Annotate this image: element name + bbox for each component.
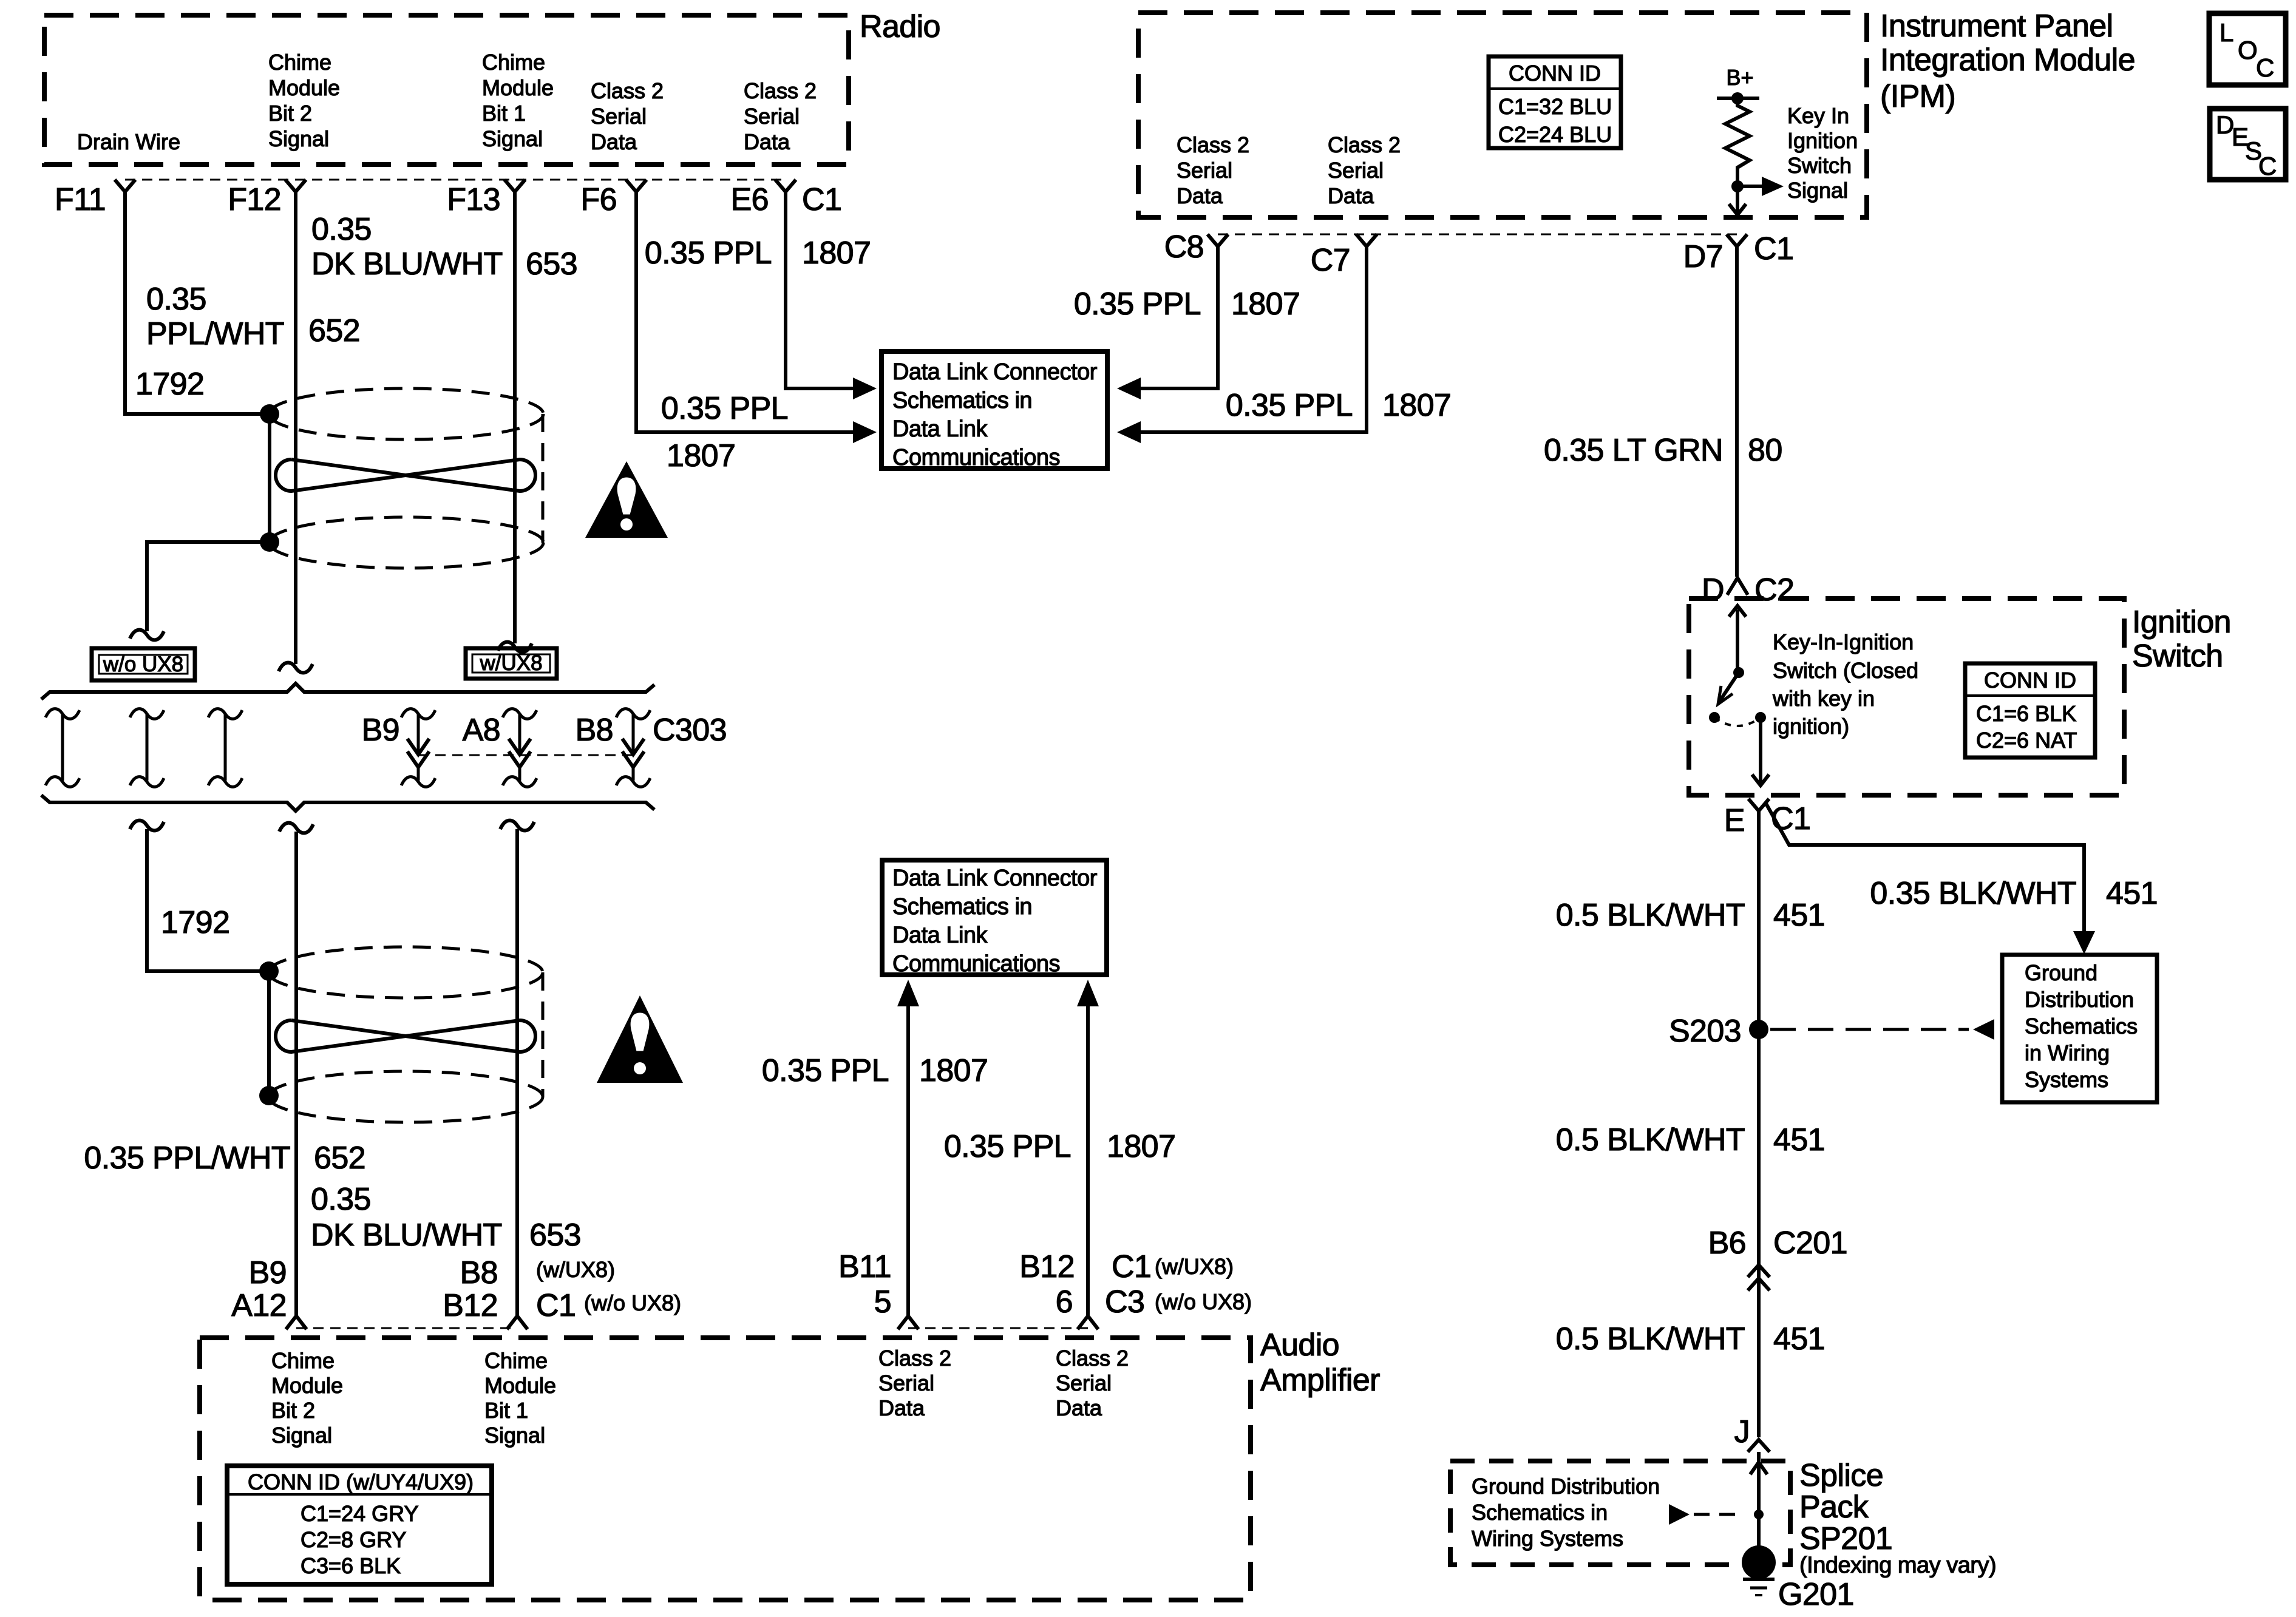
svg-text:6: 6 bbox=[1056, 1284, 1073, 1320]
reference box: Data Link Connector Schematics (upper) bbox=[881, 351, 1107, 469]
svg-text:O: O bbox=[2238, 36, 2257, 64]
arrowhead into data link box (from C7) bbox=[1117, 421, 1141, 443]
option box w/UX8 bbox=[466, 648, 557, 679]
wire break squiggle (F13 lower) bbox=[500, 821, 534, 831]
svg-text:C7: C7 bbox=[1311, 243, 1350, 278]
svg-text:L: L bbox=[2220, 18, 2233, 47]
svg-text:F13: F13 bbox=[447, 182, 500, 217]
svg-text:B9: B9 bbox=[249, 1255, 287, 1290]
wire: chime bit1 down to audio amplifier B8/B12 bbox=[515, 829, 519, 1317]
wire: F12 chime bit2 signal down through shield bbox=[294, 192, 297, 664]
svg-text:0.35 BLK/WHT: 0.35 BLK/WHT bbox=[1870, 876, 2076, 911]
module box: Splice Pack SP201 (dashed) bbox=[1450, 1461, 1790, 1565]
svg-text:CONN ID: CONN ID bbox=[1509, 61, 1601, 86]
svg-text:B8: B8 bbox=[576, 713, 613, 748]
wire: F6 class2 serial data to data link connector bbox=[636, 191, 855, 432]
C303 unused cavity symbol 1 bbox=[46, 709, 80, 719]
svg-text:ChimeModuleBit 1Signal: ChimeModuleBit 1Signal bbox=[482, 50, 554, 151]
C303 unused cavity symbol 3 bbox=[208, 709, 242, 719]
amp CONN ID box (w/UY4/UX9) bbox=[227, 1466, 492, 1584]
svg-text:IgnitionSwitch: IgnitionSwitch bbox=[2132, 605, 2231, 674]
svg-text:Class 2SerialData: Class 2SerialData bbox=[744, 78, 817, 154]
ground G201 terminal dot bbox=[1742, 1545, 1776, 1579]
shielding (lower): dashed cylinder top ellipse bbox=[268, 947, 543, 998]
svg-text:0.35PPL/WHT: 0.35PPL/WHT bbox=[146, 282, 284, 351]
arrowhead into data link box (from C8) bbox=[1117, 378, 1141, 399]
svg-text:0.5 BLK/WHT: 0.5 BLK/WHT bbox=[1556, 1321, 1745, 1357]
svg-text:C201: C201 bbox=[1773, 1225, 1847, 1261]
splice pack internal node dot bbox=[1754, 1510, 1764, 1519]
svg-text:C3: C3 bbox=[1105, 1284, 1144, 1320]
option box w/o UX8 bbox=[92, 648, 195, 680]
svg-text:1807: 1807 bbox=[1382, 388, 1451, 423]
ground symbol G201 bbox=[1743, 1578, 1775, 1581]
arrowhead up into data link box (B11 wire) bbox=[897, 980, 919, 1006]
svg-text:451: 451 bbox=[2106, 876, 2158, 911]
svg-text:0.35DK BLU/WHT: 0.35DK BLU/WHT bbox=[311, 1182, 502, 1253]
svg-text:A12: A12 bbox=[231, 1288, 287, 1323]
svg-text:ChimeModuleBit 1Signal: ChimeModuleBit 1Signal bbox=[484, 1348, 556, 1448]
svg-text:Instrument PanelIntegration Mo: Instrument PanelIntegration Module(IPM) bbox=[1880, 8, 2135, 114]
warning triangle (upper) bbox=[585, 461, 668, 538]
wire: chime bit2 down to audio amplifier B9/A12 bbox=[294, 832, 298, 1317]
shielding (lower): dashed cylinder bottom ellipse bbox=[268, 1071, 543, 1122]
amp pin fork B9/A12 bbox=[286, 1316, 307, 1329]
shielding (upper): dashed right side bbox=[542, 414, 545, 543]
amp connector dashed pin line (right) bbox=[908, 1327, 1088, 1329]
wire: amp B12 class2 serial data up to data link bbox=[1086, 1005, 1090, 1316]
junction node: lower shield top dot bbox=[259, 961, 279, 981]
svg-text:w/o UX8: w/o UX8 bbox=[103, 653, 183, 676]
wire: branch 0.35 BLK/WHT to ground distribution bbox=[1765, 802, 2084, 934]
svg-text:Ground DistributionSchematics: Ground DistributionSchematics inWiring S… bbox=[1472, 1474, 1660, 1551]
svg-text:652: 652 bbox=[314, 1141, 365, 1176]
svg-text:C: C bbox=[2256, 53, 2274, 82]
svg-text:B12: B12 bbox=[443, 1288, 498, 1323]
svg-text:(Indexing may vary): (Indexing may vary) bbox=[1799, 1553, 1996, 1578]
pin F12 fork bbox=[285, 180, 306, 192]
svg-text:A8: A8 bbox=[463, 713, 500, 748]
switch travel dashed arc bbox=[1714, 717, 1761, 726]
pin E6 fork of connector C1 bbox=[775, 180, 796, 192]
arrow to Key In Ignition Switch Signal text bbox=[1737, 185, 1762, 188]
svg-text:0.35 PPL: 0.35 PPL bbox=[645, 236, 772, 271]
pin E fork of connector C1 (ignition switch) bbox=[1748, 799, 1769, 811]
svg-text:C8: C8 bbox=[1164, 229, 1204, 265]
C303 pin B8 in-line terminal symbol bbox=[616, 709, 650, 719]
svg-text:CONN ID: CONN ID bbox=[1984, 668, 2076, 693]
wire break squiggle (drain lower) bbox=[130, 821, 164, 831]
svg-text:Class 2SerialData: Class 2SerialData bbox=[878, 1346, 951, 1420]
module box: Audio Amplifier (dashed) bbox=[200, 1338, 1251, 1600]
svg-text:ChimeModuleBit 2Signal: ChimeModuleBit 2Signal bbox=[268, 50, 340, 151]
arrowhead down into ground distribution box bbox=[2073, 931, 2095, 954]
svg-text:C1=24 GRYC2=8 GRYC3=6 BLK: C1=24 GRYC2=8 GRYC3=6 BLK bbox=[301, 1501, 418, 1578]
reference arrowhead at ground distribution box bbox=[1973, 1019, 1994, 1040]
svg-text:F11: F11 bbox=[55, 182, 106, 217]
svg-text:w/UX8: w/UX8 bbox=[479, 651, 542, 675]
B+ supply bar bbox=[1717, 97, 1759, 100]
shielding (upper): dashed cylinder top ellipse bbox=[269, 388, 543, 439]
svg-text:Class 2SerialData: Class 2SerialData bbox=[1177, 132, 1249, 208]
junction node at resistor bottom bbox=[1731, 180, 1744, 192]
svg-text:C2: C2 bbox=[1754, 572, 1794, 608]
svg-text:Key-In-IgnitionSwitch (Closedw: Key-In-IgnitionSwitch (Closedwith key in… bbox=[1772, 629, 1918, 739]
svg-text:(w/o UX8): (w/o UX8) bbox=[584, 1290, 681, 1315]
svg-text:1807: 1807 bbox=[919, 1053, 988, 1088]
junction node: lower shield bottom dot bbox=[259, 1086, 279, 1105]
svg-text:451: 451 bbox=[1773, 898, 1825, 933]
svg-text:B6: B6 bbox=[1708, 1225, 1746, 1261]
wire: C8 class2 serial data to data link connector bbox=[1139, 245, 1218, 388]
svg-text:CONN ID (w/UY4/UX9): CONN ID (w/UY4/UX9) bbox=[248, 1470, 474, 1494]
pin D7 fork of connector C1 bbox=[1727, 234, 1747, 246]
wire break squiggle (F12) bbox=[279, 663, 313, 673]
junction node: shield drain bottom dot bbox=[260, 532, 279, 552]
switch: wire with up arrow from pivot bbox=[1736, 609, 1739, 671]
twisted pair symbol (lower) bbox=[276, 1020, 535, 1052]
pin D fork of connector C2 (ignition switch) bbox=[1727, 578, 1748, 595]
wire: drain lower down and right to shield bbox=[147, 829, 260, 971]
svg-text:Drain Wire: Drain Wire bbox=[77, 129, 180, 154]
svg-text:(w/o UX8): (w/o UX8) bbox=[1155, 1289, 1252, 1314]
svg-text:C1: C1 bbox=[1771, 801, 1810, 836]
svg-text:0.35DK BLU/WHT: 0.35DK BLU/WHT bbox=[311, 212, 503, 282]
C303 pin A8 in-line terminal symbol bbox=[503, 709, 537, 719]
wire: drain between lower shield dots bbox=[267, 971, 271, 1096]
pin F13 fork bbox=[504, 180, 525, 192]
wire: drain between shield dots bbox=[268, 414, 271, 542]
pin C7 fork bbox=[1356, 234, 1377, 246]
wire: amp B11 class2 serial data up to data link bbox=[906, 1005, 910, 1316]
svg-text:C1: C1 bbox=[1754, 231, 1793, 266]
svg-text:IgnitionSwitchSignal: IgnitionSwitchSignal bbox=[1787, 128, 1858, 203]
svg-text:652: 652 bbox=[308, 313, 360, 348]
svg-text:GroundDistributionSchematicsin: GroundDistributionSchematicsin WiringSys… bbox=[2025, 960, 2138, 1092]
switch pivot contact dot bbox=[1733, 667, 1744, 678]
IPM CONN ID box bbox=[1489, 56, 1621, 148]
svg-text:D: D bbox=[1702, 572, 1724, 608]
wire: E6 class2 serial data to data link connector bbox=[786, 191, 855, 388]
C303 pin B9 in-line terminal symbol bbox=[401, 709, 435, 719]
splice node S203 bbox=[1749, 1020, 1768, 1039]
wire break squiggle (F12 lower) bbox=[279, 823, 313, 833]
svg-text:C303: C303 bbox=[653, 713, 727, 748]
junction node: shield drain top dot bbox=[260, 404, 279, 424]
svg-text:5: 5 bbox=[874, 1284, 891, 1320]
svg-text:Class 2SerialData: Class 2SerialData bbox=[1056, 1346, 1129, 1420]
amp pin fork B12/6 bbox=[1078, 1316, 1098, 1329]
C303 dashed pin line bbox=[418, 754, 633, 756]
wire: drain exits shield to left and down to break bbox=[147, 542, 270, 631]
svg-text:J: J bbox=[1734, 1414, 1750, 1449]
module box: Radio (dashed) bbox=[44, 15, 849, 164]
svg-text:1792: 1792 bbox=[161, 905, 229, 940]
svg-text:C1: C1 bbox=[1112, 1249, 1151, 1284]
svg-text:S203: S203 bbox=[1669, 1014, 1741, 1049]
svg-text:0.35 PPL: 0.35 PPL bbox=[661, 391, 788, 426]
pin F6 fork bbox=[626, 180, 647, 192]
twisted pair symbol (upper) bbox=[276, 459, 535, 491]
svg-text:B11: B11 bbox=[838, 1249, 891, 1284]
switch movable arm bbox=[1719, 673, 1739, 702]
svg-text:0.5 BLK/WHT: 0.5 BLK/WHT bbox=[1556, 898, 1745, 933]
svg-text:C1: C1 bbox=[536, 1288, 576, 1323]
IPM connector C1 dashed pin line bbox=[1218, 234, 1737, 236]
svg-text:80: 80 bbox=[1748, 433, 1782, 468]
svg-text:0.35 PPL: 0.35 PPL bbox=[762, 1053, 889, 1088]
svg-text:C1: C1 bbox=[802, 182, 841, 217]
switch: wire with down arrow to pin E bbox=[1759, 717, 1762, 784]
brace lower (connector C303 group) bbox=[41, 795, 654, 811]
arrowhead up into data link box (B12 wire) bbox=[1077, 980, 1099, 1006]
svg-text:1807: 1807 bbox=[802, 236, 871, 271]
reference box: Ground Distribution Schematics in Wiring Systems (right) bbox=[2002, 955, 2157, 1102]
resistor (key-in ignition pull-up) bbox=[1725, 98, 1750, 186]
arrowhead into data link box (from E6) bbox=[853, 378, 877, 399]
svg-text:0.35 PPL: 0.35 PPL bbox=[1074, 286, 1201, 322]
svg-text:(w/UX8): (w/UX8) bbox=[536, 1257, 615, 1282]
C303 unused cavity symbol 2 bbox=[130, 709, 164, 719]
wire break squiggle (F13) bbox=[498, 642, 532, 653]
wire break squiggle (drain, w/o UX8 side) bbox=[130, 630, 164, 640]
amp connector dashed pin line (left) bbox=[296, 1327, 517, 1329]
svg-text:0.35 PPL/WHT: 0.35 PPL/WHT bbox=[84, 1141, 290, 1176]
wire: E to S203 0.5 BLK/WHT bbox=[1757, 811, 1761, 1437]
svg-text:C: C bbox=[2258, 152, 2277, 180]
shielding (lower): dashed right side bbox=[542, 972, 545, 1097]
switch fixed contact right bbox=[1755, 712, 1766, 723]
svg-text:B9: B9 bbox=[362, 713, 399, 748]
svg-text:F12: F12 bbox=[228, 182, 281, 217]
svg-text:B12: B12 bbox=[1019, 1249, 1075, 1284]
svg-text:Data Link ConnectorSchematics: Data Link ConnectorSchematics inData Lin… bbox=[892, 866, 1098, 977]
svg-text:451: 451 bbox=[1773, 1321, 1825, 1357]
pin C8 fork bbox=[1207, 234, 1228, 246]
svg-text:F6: F6 bbox=[581, 182, 617, 217]
Radio connector C1 dashed pin line bbox=[125, 179, 786, 181]
brace upper (connector C303 group) bbox=[41, 683, 654, 699]
LOC legend box bbox=[2209, 13, 2286, 85]
wire into splice pack with up arrow bbox=[1757, 1452, 1761, 1562]
svg-text:Key In: Key In bbox=[1787, 103, 1849, 128]
svg-text:1807: 1807 bbox=[667, 438, 735, 473]
svg-text:0.5 BLK/WHT: 0.5 BLK/WHT bbox=[1556, 1122, 1745, 1158]
svg-text:1807: 1807 bbox=[1231, 286, 1300, 322]
svg-text:D7: D7 bbox=[1683, 239, 1723, 274]
arrowhead into data link box (from F6) bbox=[853, 421, 877, 443]
svg-text:C1=32 BLUC2=24 BLU: C1=32 BLUC2=24 BLU bbox=[1498, 94, 1612, 147]
module box: Ignition Switch (dashed) bbox=[1689, 598, 2124, 795]
splice pack internal reference arrow bbox=[1669, 1504, 1690, 1525]
svg-text:E6: E6 bbox=[731, 182, 769, 217]
wire: D7 key-in signal down to ignition switch bbox=[1735, 245, 1739, 577]
wire: drain wire F11 down and right to shield bbox=[125, 191, 261, 414]
amp pin fork B11/5 bbox=[898, 1316, 919, 1329]
warning triangle (lower) bbox=[597, 995, 683, 1083]
switch fixed contact left bbox=[1709, 712, 1720, 723]
svg-text:0.35 PPL: 0.35 PPL bbox=[1226, 388, 1353, 423]
svg-text:1792: 1792 bbox=[135, 367, 204, 402]
svg-text:B8: B8 bbox=[460, 1255, 498, 1290]
wire: F13 chime bit1 signal down through shield bbox=[513, 192, 517, 643]
svg-text:G201: G201 bbox=[1778, 1577, 1854, 1612]
svg-text:C1=6 BLKC2=6 NAT: C1=6 BLKC2=6 NAT bbox=[1976, 701, 2077, 753]
wire: C7 class2 serial data to data link connector bbox=[1139, 245, 1367, 432]
DESC legend box bbox=[2210, 109, 2286, 180]
svg-text:653: 653 bbox=[526, 246, 577, 282]
svg-text:Class 2SerialData: Class 2SerialData bbox=[1328, 132, 1401, 208]
shielding (upper): dashed cylinder bottom ellipse bbox=[269, 517, 543, 568]
reference box: Data Link Connector Schematics (lower) bbox=[882, 860, 1107, 975]
svg-text:0.35 LT GRN: 0.35 LT GRN bbox=[1544, 433, 1723, 468]
ignition CONN ID box bbox=[1965, 663, 2095, 758]
amp pin fork B8/B12 bbox=[507, 1316, 528, 1329]
svg-text:1807: 1807 bbox=[1107, 1129, 1175, 1164]
wire with down arrow to pin D7 bbox=[1736, 186, 1739, 214]
module box: Instrument Panel Integration Module (dashed) bbox=[1138, 13, 1867, 217]
svg-text:SplicePackSP201: SplicePackSP201 bbox=[1799, 1458, 1892, 1556]
svg-text:Data Link ConnectorSchematics: Data Link ConnectorSchematics inData Lin… bbox=[892, 359, 1098, 470]
svg-text:451: 451 bbox=[1773, 1122, 1825, 1158]
svg-text:Class 2SerialData: Class 2SerialData bbox=[591, 78, 664, 154]
svg-text:(w/UX8): (w/UX8) bbox=[1155, 1254, 1234, 1279]
dashed reference line from S203 bbox=[1770, 1028, 1969, 1031]
svg-text:0.35 PPL: 0.35 PPL bbox=[944, 1129, 1071, 1164]
svg-text:653: 653 bbox=[529, 1218, 581, 1253]
svg-text:B+: B+ bbox=[1726, 65, 1753, 90]
svg-text:E: E bbox=[1724, 803, 1745, 838]
svg-text:Radio: Radio bbox=[860, 9, 940, 44]
pin F11 fork bbox=[115, 180, 135, 192]
svg-text:AudioAmplifier: AudioAmplifier bbox=[1260, 1327, 1380, 1398]
svg-text:ChimeModuleBit 2Signal: ChimeModuleBit 2Signal bbox=[271, 1348, 343, 1448]
